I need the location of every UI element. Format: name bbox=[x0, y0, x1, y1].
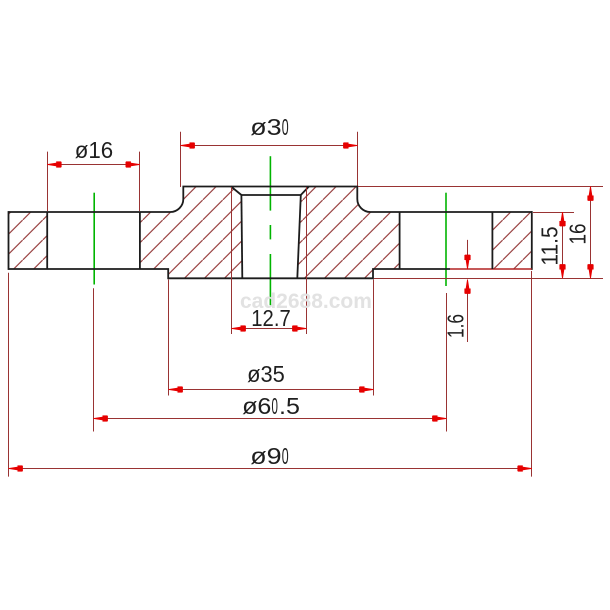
hatch right outer block bbox=[492, 212, 531, 269]
extension line dia35 right bbox=[373, 280, 375, 396]
arrow dia35 right bbox=[360, 387, 374, 391]
centerline right bolt hole green bbox=[445, 193, 447, 286]
watermark cad2688.com bbox=[240, 290, 372, 314]
label 12.7 bbox=[248, 307, 293, 330]
extension line dia30 right bbox=[357, 132, 359, 192]
arrow 12.7 right bbox=[293, 326, 307, 330]
arrow 11.5 bottom bbox=[560, 265, 564, 279]
center hole chamfer left bbox=[231, 187, 241, 196]
arrow dia90 left bbox=[9, 466, 23, 470]
extension line dia16 left bbox=[47, 152, 49, 211]
dimension line dia35 bbox=[169, 389, 374, 391]
arrow dia60.5 left bbox=[94, 416, 108, 420]
center hole chamfer bottom edge bbox=[241, 194, 300, 196]
arrow dia35 left bbox=[169, 387, 183, 391]
bolt hole right edge lines bbox=[399, 212, 401, 269]
outline left edge bbox=[8, 211, 10, 270]
extension line dia30 left bbox=[180, 132, 182, 187]
arrow 16 top bbox=[588, 187, 592, 201]
outline right edge bbox=[531, 211, 533, 270]
outline bottom profile with boss bbox=[9, 269, 451, 278]
label 11.5 rotated bbox=[538, 224, 561, 267]
label dia16 bbox=[74, 139, 114, 162]
label 16 rotated bbox=[566, 222, 589, 248]
arrow 11.5 top bbox=[560, 212, 564, 226]
dimension line dia60.5 bbox=[94, 418, 447, 420]
arrow dia90 right bbox=[518, 466, 532, 470]
extension line dia90 left bbox=[8, 273, 10, 477]
center hole left wall bbox=[240, 195, 243, 278]
dimension line dia90 bbox=[9, 468, 532, 470]
arrow dia30 right bbox=[344, 143, 358, 147]
arrow dia16 left bbox=[47, 162, 61, 166]
leader 1.6 upper line with down arrow bbox=[467, 240, 469, 269]
extension line 16 top (hub top level) bbox=[358, 186, 603, 188]
label dia60.5 bbox=[244, 395, 297, 418]
hatch right mid material bbox=[297, 187, 399, 279]
hatch left mid material bbox=[140, 187, 242, 279]
center hole right wall bbox=[297, 195, 301, 278]
extension line dia60.5 left (below bolt centerline) bbox=[93, 288, 95, 431]
arrow dia60.5 right bbox=[433, 416, 447, 420]
label dia35 bbox=[246, 363, 286, 386]
arrow dia16 right bbox=[126, 162, 140, 166]
centerline main green dashed bbox=[269, 156, 271, 210]
bolt hole left edge lines bbox=[46, 212, 48, 269]
label 1.6 rotated bbox=[444, 310, 467, 342]
extension line dia60.5 right bbox=[446, 293, 448, 432]
centerline left bolt hole green bbox=[93, 193, 95, 285]
extension line 1.6 upper (red over plate bottom) bbox=[450, 268, 532, 270]
outline top profile with hub and fillets bbox=[9, 187, 532, 213]
extension line dia16 right bbox=[139, 152, 141, 211]
arrow 12.7 left bbox=[232, 326, 246, 330]
dimension line dia16 bbox=[47, 164, 140, 166]
extension line 12.7 left bbox=[231, 187, 233, 334]
hatch left outer block bbox=[9, 212, 48, 269]
extension line 11.5 top bbox=[533, 212, 574, 214]
extension line dia90 right bbox=[531, 271, 533, 477]
arrow dia30 left bbox=[181, 143, 195, 147]
arrow 16 bottom bbox=[588, 265, 592, 279]
extension line dia35 left bbox=[168, 280, 170, 396]
label dia30 bbox=[253, 116, 287, 139]
extension line 16 and 11.5 bottom (boss bottom level) bbox=[374, 278, 603, 280]
dimension line dia30 bbox=[181, 145, 358, 147]
leader 1.6 lower line with up arrow bbox=[467, 280, 469, 343]
extension line 12.7 right bbox=[306, 187, 308, 334]
dimension line 16 bbox=[590, 186, 592, 279]
center hole chamfer right bbox=[301, 187, 309, 196]
label dia90 bbox=[253, 445, 287, 468]
dimension line 12.7 bbox=[232, 328, 307, 330]
dimension line 11.5 bbox=[562, 212, 564, 279]
